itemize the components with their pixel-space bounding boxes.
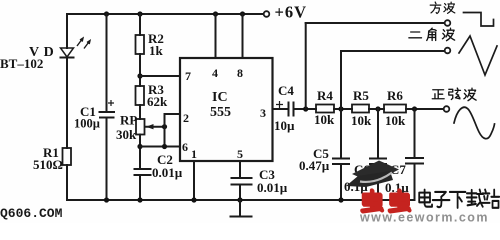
capacitor C7 [406,158,423,164]
resistor R6 [384,105,406,113]
svg-text:100µ: 100µ [74,117,100,131]
resistor R3 [136,86,145,105]
svg-text:0.47µ: 0.47µ [299,158,330,173]
wire R3 to RP [139,105,141,119]
wire R4 to R5 [334,108,352,110]
svg-text:3: 3 [260,106,266,120]
junction top C1 [104,11,109,16]
icon square wave [464,13,494,27]
wire pin 1 [193,161,195,200]
svg-text:0.01µ: 0.01µ [257,180,288,195]
terminal +6V [264,11,270,17]
label erjiaobo [409,32,422,38]
junction bottom C1 [104,197,109,202]
watermark hat logo [346,161,399,188]
wire VD branch upper [66,14,68,48]
svg-text:R5: R5 [353,88,369,103]
junction bottom C6 [375,197,380,202]
terminal square [445,20,451,26]
svg-text:www.eeworm.com: www.eeworm.com [359,211,489,224]
wire R2 to R3 [139,54,141,86]
svg-text:6: 6 [182,140,188,154]
wire RP to C2 [139,135,141,170]
svg-text:8: 8 [237,66,243,80]
wire square line [306,22,445,24]
label zhengxianbo [432,90,444,99]
junction bottom C5 [338,197,343,202]
wire triangle line [341,50,445,52]
icon sine wave [454,107,495,138]
potentiometer RP [136,119,165,135]
capacitor C1 [100,100,115,118]
wire C2 to bottom bus [139,175,141,200]
op-amp U1 IC 555 box [180,58,273,161]
svg-text:0.01µ: 0.01µ [152,165,183,180]
svg-text:10k: 10k [351,113,372,128]
resistor R4 [316,105,334,113]
svg-text:1k: 1k [149,43,164,58]
wire C4 to R4 [294,108,317,110]
capacitor C5 [333,159,349,165]
wire C1 to bottom bus [106,118,108,201]
svg-text:+6V: +6V [275,3,308,22]
wire C6 to bottom bus [377,164,379,200]
junction bottom C2 [137,197,142,202]
junction C6 tap [375,106,380,111]
svg-text:RP: RP [120,113,137,128]
svg-text:10k: 10k [314,112,335,127]
wire C5 riser [340,109,342,159]
junction bottom pin1 [191,197,196,202]
svg-text:30k: 30k [116,127,137,142]
wire VD to R1 [66,58,68,149]
svg-text:R6: R6 [387,88,403,103]
wire square riser [305,23,307,109]
junction pin6 left [137,144,142,149]
svg-text:Q606.COM: Q606.COM [0,206,63,221]
wire C7 to bottom bus [414,164,416,201]
svg-text:510Ω: 510Ω [33,157,63,172]
wire R6 to output [406,108,443,110]
wire C5 to bottom bus [340,164,342,200]
junction wiper [162,124,167,129]
wire R5 to R6 [369,108,384,110]
wire top +6V bus [67,13,263,15]
junction top R2 [137,11,142,16]
ground [231,200,252,217]
svg-text:BT–102: BT–102 [0,56,43,71]
junction pin7 branch [137,73,142,78]
junction triangle tap [338,106,343,111]
wire pin 8 [242,14,244,58]
svg-text:10k: 10k [385,113,406,128]
terminal triangle [445,48,451,54]
wire C3 to bottom bus [239,185,241,201]
wire pin 4 [215,14,217,58]
wire bottom bus [67,199,415,201]
wire triangle riser [340,51,342,109]
capacitor C4 [276,101,294,116]
icon triangle wave [459,36,497,75]
svg-text:10µ: 10µ [274,118,295,133]
wire C6 riser [377,109,379,159]
wire C1 branch upper [106,14,108,112]
junction bottom C3 ground [237,197,242,202]
junction pin6 tie [162,144,167,149]
junction square tap [303,106,308,111]
wire pin 6 [140,146,180,148]
wire R2 branch upper [139,14,141,35]
wire pin 7 [140,75,180,77]
watermark chongchong red [362,190,382,211]
wire C7 riser [414,109,416,158]
junction top pin8 [240,11,245,16]
svg-text:5: 5 [237,147,243,161]
svg-text:1: 1 [191,147,197,161]
wire pin 5 [239,161,241,178]
svg-text:IC: IC [212,90,228,105]
svg-text:62k: 62k [147,94,168,109]
label fangbo [430,2,441,13]
svg-text:2: 2 [183,111,189,125]
wire R1 to bottom bus [66,165,68,200]
capacitor C2 [135,169,151,175]
svg-text:4: 4 [212,66,218,80]
resistor R2 [136,35,145,54]
photodiode VD [61,38,91,58]
svg-text:555: 555 [210,105,231,120]
svg-text:C4: C4 [278,83,294,98]
wire pin 3 out [273,108,288,110]
svg-text:7: 7 [185,69,191,83]
junction top pin4 [213,11,218,16]
capacitor C6 [370,159,386,165]
junction C7 tap [412,106,417,111]
svg-text:R4: R4 [317,88,333,103]
resistor R5 [352,105,369,113]
terminal sine [444,106,450,112]
capacitor C3 [232,178,252,185]
watermark dianzi xiazaizhan [419,190,432,207]
resistor R1 [63,148,72,165]
wire wiper to pin2 and pin6 [165,114,181,147]
